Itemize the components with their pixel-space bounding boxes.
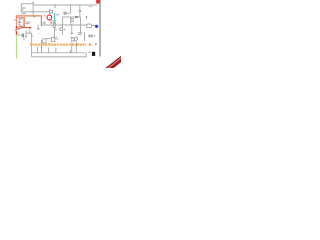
annotation arrow diagonal	[15, 27, 29, 30]
wire V16	[84, 32, 86, 41]
regulator U1 pins	[18, 20, 21, 26]
cyan label smudges	[33, 12, 52, 17]
red circle annotation	[47, 15, 52, 20]
wire vertical V1	[20, 4, 22, 12]
wire V19	[29, 30, 31, 33]
wire main mid rail H6	[42, 24, 96, 26]
regulator U1 highlight rect	[17, 18, 25, 27]
page edge shadow	[99, 0, 101, 57]
node plus mark	[54, 13, 55, 14]
wire V3	[49, 9, 51, 21]
wire Q2 base	[73, 38, 75, 40]
red selection handle top-right	[96, 0, 100, 4]
wire V21	[55, 36, 57, 38]
red dash annotation	[50, 22, 52, 24]
node dot inside circle	[49, 17, 50, 18]
wire V8	[79, 17, 81, 33]
wire V5	[79, 5, 81, 17]
wire V6	[62, 17, 64, 35]
component B4 box	[53, 25, 55, 27]
wire V9	[54, 21, 56, 38]
wire V26	[75, 42, 77, 53]
component B7 box	[71, 19, 73, 22]
transistor Q2	[74, 37, 77, 40]
orange value text row	[30, 44, 91, 46]
capacitor C6	[70, 25, 73, 53]
wire V25	[70, 50, 72, 53]
resistor R7 glyph	[86, 16, 87, 19]
component B2 box	[87, 24, 92, 28]
node V13 tick	[41, 47, 43, 49]
node V11 tick	[32, 35, 34, 37]
cyan probe wire	[54, 14, 55, 22]
capacitor C2 plates	[53, 22, 56, 23]
capacitor C1 box	[50, 10, 53, 13]
component X1 circles	[75, 16, 77, 18]
diode D1	[64, 12, 66, 14]
annotation arrow red tip	[29, 27, 31, 29]
wire bottom rail R1	[32, 52, 86, 54]
wire V13	[41, 40, 43, 53]
component B6 box	[52, 38, 55, 42]
node tick top of V2	[32, 2, 34, 4]
red marker top of green net	[16, 31, 17, 35]
capacitor C5	[37, 25, 40, 30]
wire V11 long left vertical	[31, 33, 33, 57]
green highlighted net	[16, 35, 17, 59]
wire vertical V2	[32, 3, 34, 16]
orange highlighted wire top	[16, 16, 42, 26]
node B5 tick	[25, 35, 27, 37]
component L1 glyph	[22, 7, 25, 9]
wire V24	[55, 48, 57, 53]
capacitor C4 plates	[79, 10, 82, 11]
wire V22	[37, 47, 39, 53]
wire H7	[50, 20, 56, 22]
component B3 box	[43, 39, 46, 43]
wire H8b	[55, 38, 59, 40]
wire Q1 lead	[58, 28, 61, 30]
regulator U1 body	[19, 19, 23, 27]
red pencil cursor	[104, 56, 124, 72]
wire mid rail H3	[21, 11, 50, 13]
wire bottom rail R2	[32, 56, 86, 58]
blue node dot	[95, 25, 98, 28]
wire V20	[23, 37, 25, 40]
component B5 box	[22, 34, 25, 38]
wire V12	[25, 30, 27, 38]
wire V23	[48, 48, 50, 53]
wire H9	[26, 32, 32, 34]
wire V7	[70, 17, 72, 25]
node B2 pin tick	[88, 22, 90, 25]
label smudge near circle	[43, 14, 46, 17]
wire V4	[70, 5, 72, 13]
text labels (gray smudges)	[14, 6, 97, 53]
transistor Q1	[60, 28, 63, 31]
wire V18 corner	[85, 53, 87, 57]
wire top rail left	[21, 3, 33, 5]
wire top rail main	[33, 4, 97, 6]
black terminal block	[92, 52, 95, 56]
wire J1 drop	[54, 5, 56, 6]
component B8 glyph	[79, 33, 81, 35]
red marker corner	[16, 26, 18, 29]
wire H4	[64, 12, 71, 14]
orange wire stub	[15, 16, 17, 18]
node junction J1	[54, 4, 55, 5]
wire H5	[63, 16, 81, 18]
wire H8	[46, 37, 51, 39]
